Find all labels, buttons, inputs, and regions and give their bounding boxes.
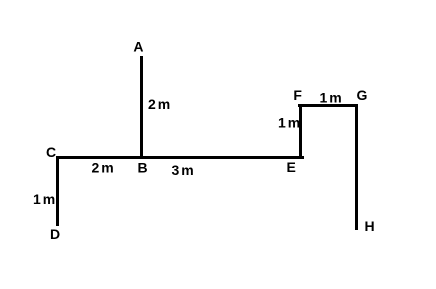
wire E-F vertical segment [299, 104, 302, 159]
svg-text:B: B [138, 159, 148, 175]
svg-text:D: D [50, 226, 60, 242]
svg-text:1m: 1m [33, 191, 57, 207]
svg-text:1m: 1m [320, 90, 344, 106]
svg-text:2m: 2m [148, 96, 172, 112]
wire F-G horizontal segment [298, 104, 355, 107]
svg-text:1m: 1m [278, 114, 302, 130]
svg-text:A: A [133, 39, 143, 55]
wire G-H vertical segment [355, 104, 358, 230]
wire C-E horizontal segment [56, 156, 304, 159]
wire C-D vertical segment [56, 156, 59, 226]
svg-text:F: F [293, 87, 302, 103]
svg-text:3m: 3m [172, 162, 196, 178]
svg-text:G: G [357, 87, 368, 103]
svg-text:H: H [365, 218, 375, 234]
svg-text:E: E [287, 159, 296, 175]
svg-text:2m: 2m [92, 159, 116, 175]
svg-text:C: C [46, 144, 56, 160]
wire A-B vertical segment [140, 56, 143, 159]
